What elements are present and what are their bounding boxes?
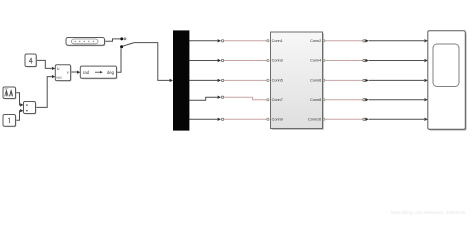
svg-text:Conn2: Conn2 xyxy=(310,39,321,43)
svg-text:Conn4: Conn4 xyxy=(310,59,321,63)
svg-text:U: U xyxy=(57,67,60,71)
svg-text:Conn1: Conn1 xyxy=(272,39,283,43)
svg-text:deg: deg xyxy=(107,70,115,75)
svg-text:Conn3: Conn3 xyxy=(272,59,283,63)
svg-text:Conn10: Conn10 xyxy=(308,117,321,121)
svg-text:https://blog.csdn.net/weixin_4: https://blog.csdn.net/weixin_44560026 xyxy=(391,210,466,215)
svg-text:Conn9: Conn9 xyxy=(272,117,283,121)
svg-text:': ' xyxy=(398,205,399,210)
svg-text:rad: rad xyxy=(83,70,90,75)
svg-text:Conn8: Conn8 xyxy=(310,98,321,102)
svg-text:Conn6: Conn6 xyxy=(310,79,321,83)
svg-text:Conn5: Conn5 xyxy=(272,79,283,83)
svg-text:Conn7: Conn7 xyxy=(272,98,283,102)
svg-text:Idx2: Idx2 xyxy=(56,76,62,80)
